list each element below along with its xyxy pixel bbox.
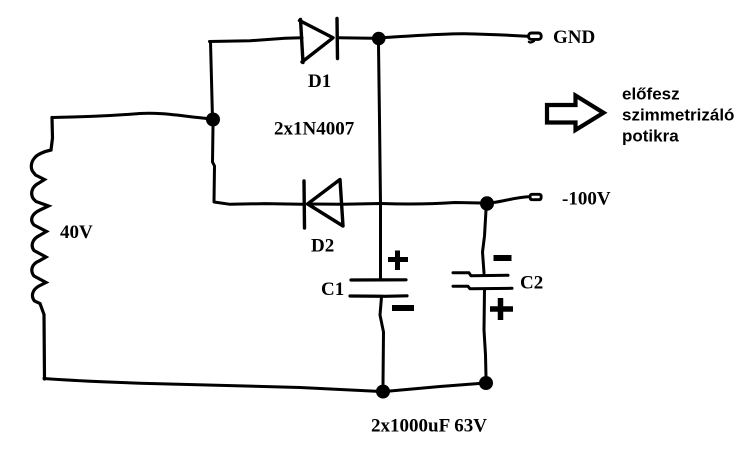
capacitor C1 plus sign xyxy=(388,251,408,271)
svg-text:2x1000uF 63V: 2x1000uF 63V xyxy=(371,416,487,437)
capacitor C1 minus sign xyxy=(392,305,414,311)
wire node B to GND terminal xyxy=(385,34,527,38)
annotation text elofesz szimmetrizalo potikra xyxy=(622,85,734,146)
wire C1 to bottom node D xyxy=(380,297,384,385)
capacitor C2 xyxy=(453,273,512,289)
wire node D to node E xyxy=(390,384,479,392)
capacitor C2 minus sign xyxy=(494,255,512,261)
wire left vertical riser xyxy=(211,42,213,119)
diode D1 xyxy=(300,19,338,63)
capacitor C2 plus sign xyxy=(490,298,513,320)
wire node B down to C1 xyxy=(379,45,381,279)
node E junction dot xyxy=(479,376,493,390)
node A junction dot xyxy=(206,113,220,127)
node C junction dot xyxy=(480,196,494,210)
svg-text:GND: GND xyxy=(553,27,595,48)
capacitor C1 xyxy=(350,280,407,297)
svg-text:szimmetrizáló: szimmetrizáló xyxy=(622,106,734,125)
GND terminal xyxy=(529,33,542,39)
svg-text:2x1N4007: 2x1N4007 xyxy=(274,119,355,140)
svg-text:előfesz: előfesz xyxy=(622,85,680,104)
wire D2 row across to node C xyxy=(308,203,481,205)
wire bottom left run xyxy=(44,379,376,392)
wire C2 to bottom node E xyxy=(484,290,486,378)
block arrow xyxy=(547,96,604,131)
wire node A down to D2 row xyxy=(213,126,303,204)
wire D1 cathode to node B xyxy=(338,36,372,39)
wire top horizontal to D1 xyxy=(210,38,303,42)
svg-text:potikra: potikra xyxy=(622,127,679,146)
node D junction dot xyxy=(376,385,390,399)
svg-text:D2: D2 xyxy=(311,236,334,257)
transformer winding 40V xyxy=(31,118,52,380)
wire node C to -100V terminal xyxy=(494,197,529,203)
node B junction dot xyxy=(372,32,386,46)
svg-text:C1: C1 xyxy=(321,279,344,300)
wire node C down to C2 xyxy=(483,210,487,273)
svg-text:40V: 40V xyxy=(60,222,93,243)
svg-text:C2: C2 xyxy=(520,273,543,294)
svg-text:D1: D1 xyxy=(308,71,331,92)
diode D2 xyxy=(304,180,343,229)
svg-text:-100V: -100V xyxy=(562,189,611,210)
-100V terminal xyxy=(530,194,541,199)
wire coil top to node A xyxy=(52,113,207,118)
